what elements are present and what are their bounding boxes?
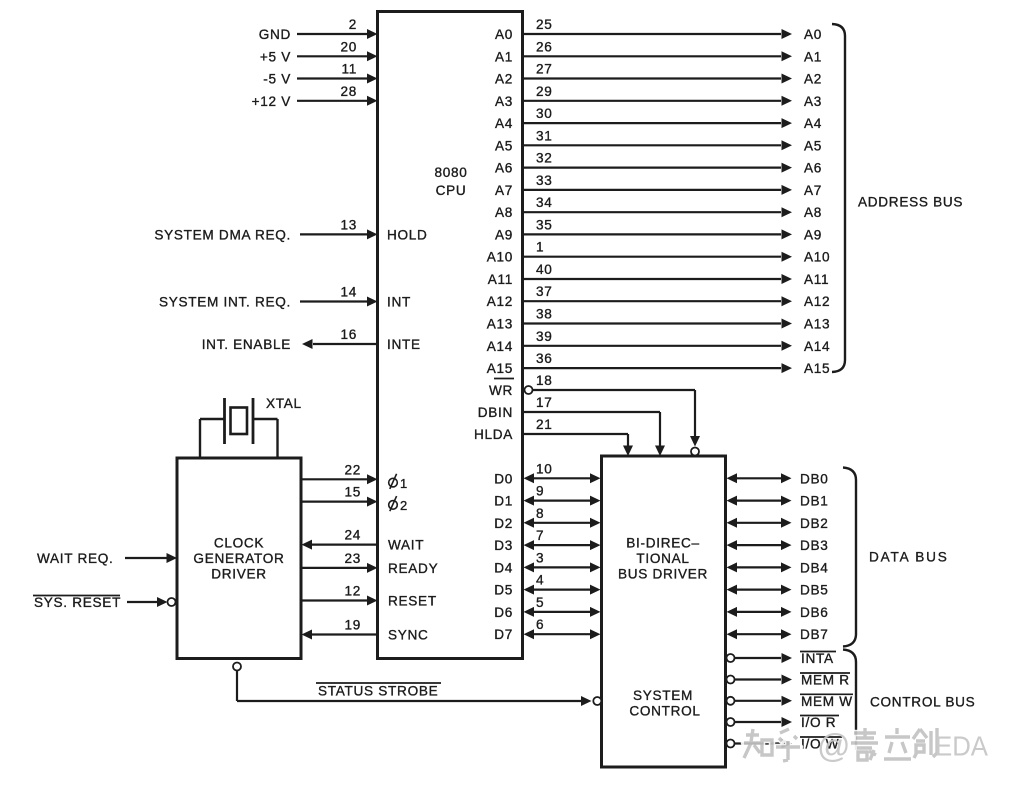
svg-text:DB2: DB2: [800, 516, 829, 531]
svg-text:D7: D7: [494, 627, 513, 642]
svg-text:INT: INT: [387, 295, 411, 310]
svg-text:DB7: DB7: [800, 627, 829, 642]
svg-text:10: 10: [536, 461, 553, 476]
svg-text:EDA: EDA: [935, 731, 988, 762]
svg-text:SYSTEM INT. REQ.: SYSTEM INT. REQ.: [159, 295, 291, 310]
svg-text:DATA BUS: DATA BUS: [869, 550, 949, 565]
svg-text:13: 13: [340, 217, 357, 232]
svg-text:D4: D4: [494, 560, 513, 575]
svg-text:A6: A6: [495, 161, 513, 176]
svg-text:33: 33: [536, 173, 553, 188]
svg-text:21: 21: [536, 417, 553, 432]
svg-text:D5: D5: [494, 583, 513, 598]
svg-text:37: 37: [536, 284, 553, 299]
svg-text:39: 39: [536, 329, 553, 344]
svg-text:INTE: INTE: [387, 337, 421, 352]
svg-text:A2: A2: [495, 72, 513, 87]
svg-text:STATUS STROBE: STATUS STROBE: [318, 684, 438, 699]
svg-text:INTA: INTA: [801, 651, 834, 666]
svg-text:31: 31: [536, 128, 553, 143]
svg-text:2: 2: [400, 498, 408, 513]
svg-text:CPU: CPU: [436, 183, 467, 198]
svg-text:CONTROL BUS: CONTROL BUS: [870, 695, 975, 710]
svg-text:DBIN: DBIN: [478, 405, 513, 420]
svg-text:BUS DRIVER: BUS DRIVER: [618, 567, 708, 582]
svg-text:WAIT: WAIT: [388, 538, 424, 553]
svg-text:BI-DIREC–: BI-DIREC–: [626, 536, 700, 551]
svg-text:HLDA: HLDA: [474, 427, 513, 442]
svg-text:A12: A12: [487, 294, 513, 309]
svg-text:26: 26: [536, 39, 553, 54]
svg-text:INT. ENABLE: INT. ENABLE: [202, 337, 291, 352]
svg-text:SYNC: SYNC: [388, 628, 429, 643]
svg-text:A11: A11: [804, 272, 829, 287]
svg-text:A11: A11: [488, 272, 513, 287]
svg-text:A15: A15: [487, 361, 513, 376]
svg-text:GND: GND: [259, 27, 291, 42]
svg-text:SYSTEM: SYSTEM: [633, 688, 693, 703]
svg-text:A7: A7: [495, 183, 513, 198]
svg-text:36: 36: [536, 351, 553, 366]
svg-text:1: 1: [536, 240, 544, 255]
svg-text:A0: A0: [804, 27, 822, 42]
svg-text:DB3: DB3: [800, 538, 829, 553]
svg-text:25: 25: [536, 17, 553, 32]
svg-text:DB5: DB5: [800, 583, 829, 598]
svg-text:CONTROL: CONTROL: [629, 704, 700, 719]
svg-text:15: 15: [344, 485, 361, 500]
svg-text:A1: A1: [804, 49, 822, 64]
svg-text:+5 V: +5 V: [260, 49, 291, 64]
svg-text:5: 5: [536, 595, 544, 610]
svg-text:A5: A5: [495, 138, 513, 153]
svg-text:3: 3: [536, 550, 544, 565]
svg-text:ADDRESS BUS: ADDRESS BUS: [858, 195, 963, 210]
svg-text:16: 16: [340, 327, 357, 342]
svg-text:MEM R: MEM R: [801, 673, 850, 688]
svg-text:A1: A1: [495, 49, 513, 64]
svg-text:@: @: [817, 727, 851, 764]
svg-text:WAIT REQ.: WAIT REQ.: [37, 551, 114, 566]
svg-text:35: 35: [536, 217, 553, 232]
svg-text:CLOCK: CLOCK: [214, 536, 264, 551]
svg-text:A15: A15: [804, 361, 830, 376]
svg-text:18: 18: [536, 373, 553, 388]
svg-text:A12: A12: [804, 294, 830, 309]
svg-text:19: 19: [344, 618, 361, 633]
svg-text:D1: D1: [494, 494, 513, 509]
svg-text:30: 30: [536, 106, 553, 121]
svg-text:A10: A10: [487, 250, 513, 265]
svg-text:14: 14: [340, 285, 357, 300]
svg-text:38: 38: [536, 307, 553, 322]
svg-text:A8: A8: [804, 205, 822, 220]
svg-text:23: 23: [344, 551, 361, 566]
svg-text:WR: WR: [489, 383, 513, 398]
svg-text:RESET: RESET: [388, 594, 437, 609]
svg-text:DB6: DB6: [800, 605, 829, 620]
svg-text:A10: A10: [804, 250, 830, 265]
svg-text:DRIVER: DRIVER: [211, 567, 267, 582]
svg-text:A3: A3: [495, 94, 513, 109]
svg-text:A0: A0: [495, 27, 513, 42]
svg-text:4: 4: [536, 573, 544, 588]
svg-text:32: 32: [536, 151, 553, 166]
svg-text:27: 27: [536, 62, 553, 77]
svg-text:SYS. RESET: SYS. RESET: [34, 595, 121, 610]
svg-text:A7: A7: [804, 183, 822, 198]
svg-text:28: 28: [340, 84, 357, 99]
svg-text:20: 20: [340, 39, 357, 54]
svg-text:XTAL: XTAL: [266, 396, 302, 411]
svg-text:A14: A14: [804, 339, 830, 354]
svg-text:40: 40: [536, 262, 553, 277]
svg-text:A8: A8: [495, 205, 513, 220]
svg-text:A2: A2: [804, 72, 822, 87]
svg-text:MEM W: MEM W: [801, 694, 853, 709]
svg-text:11: 11: [341, 62, 357, 77]
svg-text:A13: A13: [804, 317, 830, 332]
svg-text:TIONAL: TIONAL: [636, 551, 689, 566]
svg-text:D2: D2: [494, 516, 513, 531]
svg-text:GENERATOR: GENERATOR: [193, 551, 284, 566]
svg-text:8: 8: [536, 506, 544, 521]
svg-text:A6: A6: [804, 161, 822, 176]
svg-text:17: 17: [536, 395, 553, 410]
svg-text:7: 7: [536, 528, 544, 543]
svg-text:READY: READY: [388, 561, 438, 576]
svg-text:A3: A3: [804, 94, 822, 109]
svg-text:D6: D6: [494, 605, 513, 620]
svg-text:DB4: DB4: [800, 560, 829, 575]
svg-text:DB0: DB0: [800, 471, 829, 486]
svg-text:D3: D3: [494, 538, 513, 553]
svg-text:HOLD: HOLD: [387, 227, 428, 242]
svg-text:9: 9: [536, 484, 544, 499]
svg-text:34: 34: [536, 195, 553, 210]
svg-text:22: 22: [344, 462, 361, 477]
svg-text:A9: A9: [495, 227, 513, 242]
svg-text:2: 2: [349, 17, 357, 32]
svg-text:-5 V: -5 V: [263, 72, 291, 87]
svg-text:A5: A5: [804, 138, 822, 153]
svg-text:+12 V: +12 V: [252, 94, 291, 109]
svg-text:DB1: DB1: [800, 494, 829, 509]
svg-text:A9: A9: [804, 227, 822, 242]
svg-text:D0: D0: [494, 471, 513, 486]
svg-text:SYSTEM DMA REQ.: SYSTEM DMA REQ.: [154, 227, 291, 242]
svg-text:6: 6: [536, 617, 544, 632]
svg-text:A14: A14: [487, 339, 513, 354]
svg-text:29: 29: [536, 84, 553, 99]
svg-text:24: 24: [344, 528, 361, 543]
svg-text:A4: A4: [495, 116, 513, 131]
svg-text:8080: 8080: [434, 165, 467, 180]
svg-text:A4: A4: [804, 116, 822, 131]
svg-text:1: 1: [400, 476, 408, 491]
svg-text:12: 12: [344, 584, 361, 599]
svg-text:A13: A13: [487, 317, 513, 332]
